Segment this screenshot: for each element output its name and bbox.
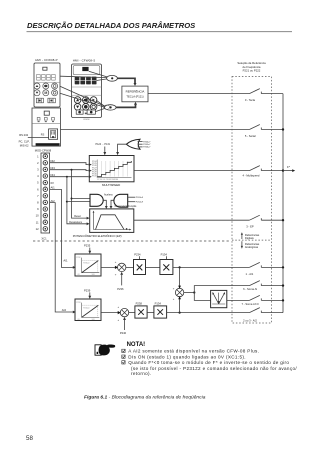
referencias digitais label [241, 232, 260, 240]
selection dashed box [232, 77, 272, 324]
svg-text:AI1: AI1 [51, 186, 56, 190]
wire AI1' to switch [173, 266, 250, 268]
svg-text:M: M [44, 91, 47, 95]
wire AI2 from terminal 8 [50, 199, 74, 312]
svg-text:P266=7: P266=7 [143, 147, 151, 149]
nota hand icon [95, 344, 115, 355]
svg-text:P234: P234 [134, 252, 141, 256]
svg-text:P240: P240 [120, 331, 127, 335]
svg-text:P264=9: P264=9 [136, 202, 144, 204]
svg-text:HMI - CFW08-S: HMI - CFW08-S [73, 59, 96, 63]
svg-text:DIs ON (estado 1) quando ligad: DIs ON (estado 1) quando ligadas ao 0V (… [128, 355, 246, 360]
wire ref-tecla to switch 0-Tecla [148, 93, 249, 95]
checkbox 3 [122, 361, 126, 364]
wire to EP accel gate input a [72, 198, 91, 200]
HMI keypad S body [72, 64, 102, 121]
svg-text:11: 11 [36, 220, 39, 224]
svg-text:Desacelera: Desacelera [69, 221, 82, 224]
wires from keypads to bottom bundle [60, 86, 105, 111]
svg-text:Analógicas: Analógicas [245, 245, 259, 249]
svg-text:DESCRIÇÃO DETALHADA DOS PARÂME: DESCRIÇÃO DETALHADA DOS PARÂMETROS [27, 21, 195, 30]
arrow AI1 wire into block [73, 266, 76, 269]
arrow P235 into AI1 block [89, 248, 91, 251]
svg-text:10: 10 [36, 214, 39, 218]
wire into abs block [194, 293, 210, 301]
AI1 signal block [75, 254, 101, 276]
serial module MOD-CFW08 [32, 108, 61, 146]
junction AI2' to adder [179, 312, 181, 314]
EP accelerate AND gate [90, 194, 103, 206]
wire module to switch 5-Serial [61, 129, 250, 131]
AI2 offset sum circle [118, 305, 129, 322]
svg-text:A AI2 somente está disponível: A AI2 somente está disponível na versão … [128, 349, 259, 354]
wire multispeed to switch [134, 170, 249, 172]
svg-text:0 - Tecla: 0 - Tecla [245, 98, 256, 102]
AI1 scale X2 box [160, 260, 173, 275]
svg-text:P264=7: P264=7 [143, 141, 151, 143]
terminal strip XC1 [41, 153, 50, 233]
wire RS232 into module [28, 136, 49, 138]
wire sum to X1 [126, 266, 134, 268]
svg-text:1 - AI1: 1 - AI1 [246, 272, 254, 276]
svg-text:POTENCIÔMETRO ELETRÔNICO (EP): POTENCIÔMETRO ELETRÔNICO (EP) [73, 233, 122, 238]
junction adder output [193, 291, 195, 293]
svg-text:P233: P233 [76, 302, 80, 304]
svg-text:P235: P235 [84, 244, 91, 248]
arrow P240 into sum [124, 320, 126, 330]
wire AI1 block to sum [101, 266, 117, 268]
arrow P239 into AI2 block [89, 292, 91, 296]
svg-text:2 ou 3 - AI2: 2 ou 3 - AI2 [243, 319, 257, 323]
svg-text:P124 ... P131: P124 ... P131 [96, 143, 111, 146]
wire OR gate to multispeed top [118, 144, 127, 152]
arrow AI2 wire into block [73, 311, 76, 314]
switch SW4 input wire [246, 215, 283, 228]
junction DI4 branch to gate [66, 201, 68, 203]
svg-text:TECLA (P121): TECLA (P121) [126, 95, 143, 99]
OR gate inputs [138, 142, 143, 147]
svg-text:Acelera: Acelera [104, 194, 113, 197]
wire adder output [184, 292, 195, 294]
wires from keypads to top bundle [60, 71, 107, 80]
AI2 scale X2 box [154, 306, 167, 318]
wire up into adder [179, 297, 181, 313]
svg-text:REFERÊNCIA: REFERÊNCIA [126, 89, 145, 94]
wire EP to switch [134, 219, 250, 221]
switch SW3 input wire [243, 166, 284, 178]
svg-text:12: 12 [36, 227, 39, 231]
svg-text:P239: P239 [84, 288, 91, 292]
output bus [282, 94, 284, 313]
svg-text:MIS-02: MIS-02 [20, 143, 29, 147]
AI2 signal block [75, 299, 101, 321]
vertical branch from DI3 to EP [72, 170, 87, 218]
svg-text:6 - Soma AI: 6 - Soma AI [243, 287, 257, 291]
absolute value block [211, 290, 227, 307]
wire DI3 to multispeed [50, 166, 89, 171]
wire X1 to X2 [146, 266, 160, 268]
switch SW6 input wire [243, 281, 283, 291]
AI sum circle [173, 286, 184, 300]
wire AI2 block to sum [101, 312, 120, 314]
wire abs to switch [227, 299, 250, 301]
switch SW1 input wire [245, 89, 283, 103]
svg-text:DI3: DI3 [51, 166, 56, 170]
svg-text:Quando F*<0 toma-se o módulo d: Quando F*<0 toma-se o módulo de F* e inv… [128, 360, 289, 365]
top bundle node [107, 75, 118, 81]
OR gate multispeed selection [126, 139, 140, 149]
svg-text:XC1: XC1 [41, 237, 47, 241]
bottom bundle node [104, 105, 117, 110]
F* output arrow [283, 165, 295, 172]
EP decelerate AND gate [114, 194, 128, 207]
wire bottom bundle to ref-tecla box [116, 105, 135, 108]
svg-text:3 - EP: 3 - EP [246, 225, 254, 229]
wire down into adder [179, 267, 181, 288]
svg-text:P134: P134 [155, 301, 162, 305]
HMI keypad P body [34, 63, 60, 107]
desacelera arrow into EP [87, 222, 90, 225]
EP ramp block [90, 209, 134, 233]
svg-text:P265=7: P265=7 [143, 144, 151, 146]
arrow P234 into X1 [139, 256, 141, 259]
svg-text:P236: P236 [117, 287, 124, 291]
svg-text:CFW08: CFW08 [83, 119, 89, 121]
REFERENCIA TECLA (P121) box [122, 86, 148, 102]
svg-text:P240=0: P240=0 [83, 307, 89, 309]
junction AI1' to adder [179, 266, 181, 268]
digital/analog dashed divider right [232, 239, 272, 241]
referencias analogicas label [241, 241, 260, 249]
svg-text:AI1: AI1 [63, 259, 68, 263]
svg-text:Reset: Reset [74, 215, 81, 218]
svg-text:4 - Multispeed: 4 - Multispeed [243, 174, 260, 178]
multispeed input arrows [89, 163, 92, 166]
svg-text:P263=9: P263=9 [136, 197, 144, 199]
svg-text:DI2: DI2 [51, 159, 56, 163]
switch SW7 input wire [242, 295, 284, 305]
terminal circles and numbers [43, 154, 47, 158]
wire AI1 from terminal 6 [50, 186, 74, 268]
svg-text:PC, CLP,: PC, CLP, [19, 140, 30, 144]
junction on DI3 wire [71, 169, 73, 171]
svg-text:MOD-CFW08: MOD-CFW08 [35, 149, 52, 153]
svg-text:AI2: AI2 [62, 308, 67, 312]
svg-text:1 2 3 4 5 6 7 8 DI2 DI: 1 2 3 4 5 6 7 8 DI2 DI3 DI4 [97, 179, 118, 181]
arrow P236 into sum [121, 275, 123, 286]
svg-text:MULTISPEED: MULTISPEED [102, 183, 120, 187]
arrow P134 into X2 [165, 256, 167, 259]
svg-text:Digitais: Digitais [245, 236, 254, 240]
svg-text:retorno).: retorno). [131, 371, 152, 376]
reset arrow into EP [87, 217, 90, 220]
wire top bundle to ref-tecla box [117, 78, 135, 83]
wire AI2' to switch [167, 312, 250, 314]
switch SW2 input wire [245, 125, 283, 139]
title rule [27, 31, 293, 33]
AI1 gain X1 box [134, 260, 146, 275]
svg-text:Desacelera Função: Desacelera Função [115, 205, 137, 208]
wire DI4 to multispeed [50, 173, 89, 177]
switch SW5 input wire [246, 262, 284, 276]
svg-text:5 - Serial: 5 - Serial [245, 134, 256, 138]
wire sum to X1 AI2 [129, 312, 135, 314]
svg-text:7 - Soma AI>0: 7 - Soma AI>0 [242, 302, 260, 306]
svg-text:RS 232: RS 232 [19, 133, 28, 137]
AI2 gain X1 box [135, 306, 147, 318]
wire X1 to X2 AI2 [147, 312, 154, 314]
svg-text:DI4: DI4 [51, 173, 56, 177]
bus junction dots [282, 128, 284, 130]
svg-text:Figura 6.1 - Blocodiagrama da: Figura 6.1 - Blocodiagrama da referência… [84, 395, 206, 401]
OR gate input labels [143, 141, 151, 148]
wire soma AI to switch [194, 286, 249, 293]
junction on DI4 wire [66, 176, 68, 178]
checkbox 1 [122, 349, 126, 352]
svg-text:RS: RS [41, 133, 45, 136]
dashed divider digital/analog left [33, 240, 231, 242]
selection header label [237, 61, 266, 73]
AI1 offset sum circle [115, 260, 126, 277]
svg-text:P221 ou P222: P221 ou P222 [243, 69, 261, 73]
arrow label into multispeed [104, 147, 106, 153]
switch SW8 input wire [243, 308, 283, 323]
checkbox 2 [122, 355, 126, 358]
svg-text:P238: P238 [136, 301, 143, 305]
svg-text:HMI - CFW08-P: HMI - CFW08-P [35, 58, 58, 62]
decel gate inputs [128, 197, 136, 202]
svg-text:P134: P134 [161, 252, 168, 256]
svg-text:0V: 0V [51, 181, 55, 185]
svg-text:P232: P232 [76, 257, 80, 259]
MULTISPEED block [89, 156, 134, 182]
svg-text:NOTA!: NOTA! [127, 342, 146, 348]
svg-text:P236=0: P236=0 [83, 263, 89, 265]
svg-text:58: 58 [26, 435, 33, 442]
wire accel gate to EP block [103, 200, 106, 206]
vertical branch from DI4 to EP [67, 177, 87, 224]
wire to EP accel gate input b [67, 201, 90, 203]
svg-text:AI2: AI2 [51, 199, 56, 203]
junction DI3 branch to gate [71, 198, 73, 200]
wire DI2 to multispeed [50, 159, 89, 165]
svg-text:(se isto for possível - P231≠2: (se isto for possível - P231≠2 e comando… [131, 366, 297, 371]
wire decel gate to EP block [111, 200, 114, 206]
